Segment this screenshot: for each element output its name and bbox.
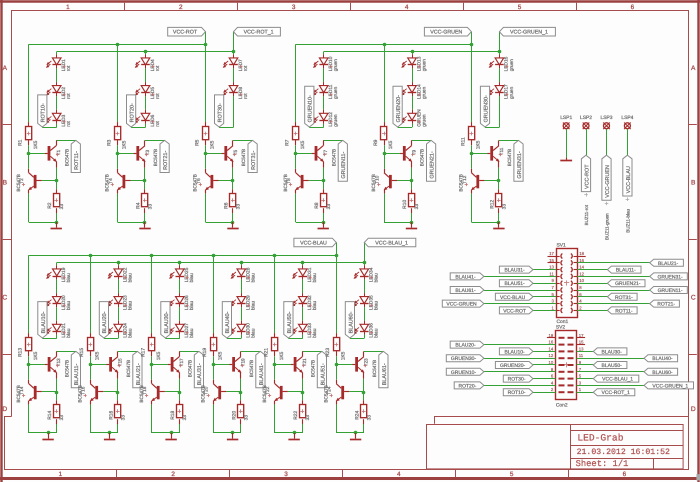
LED LED20 [47, 293, 72, 310]
svg-text:5: 5 [518, 4, 522, 11]
junction ground node R18 [170, 431, 174, 435]
svg-text:GRUEN10-: GRUEN10- [308, 95, 314, 122]
transistor T2 BC547B [16, 169, 42, 194]
svg-text:LED3: LED3 [61, 114, 67, 126]
net name BUZ11-rot [584, 193, 589, 225]
wire emitter T4 to ground [118, 193, 146, 222]
wire emitter T20 to ground [213, 404, 241, 433]
wire R15 to node [90, 351, 92, 365]
svg-text:LED11: LED11 [328, 84, 334, 99]
wire collector T14 [28, 365, 30, 380]
LED LED2 [47, 82, 73, 99]
svg-text:VCC-BLAU_1: VCC-BLAU_1 [375, 240, 408, 246]
wire emitter T13 to base T14 [42, 379, 57, 392]
wire VCC-GRUEN flag stem [471, 32, 473, 45]
svg-text:BC547B: BC547B [16, 174, 21, 191]
junction node R17/T17 [150, 363, 154, 367]
wire BLAU10- to pin [533, 351, 556, 353]
wire collector T4 [117, 154, 119, 169]
net flag BLAU51- [317, 351, 326, 387]
wire R7 to node [295, 140, 297, 154]
svg-text:R10: R10 [402, 200, 408, 209]
svg-text:R3: R3 [106, 139, 112, 146]
junction ground node R14 [47, 431, 51, 435]
junction ground node R16 [108, 431, 112, 435]
resistor R18 [170, 405, 188, 421]
wire emitter T2 to ground [29, 193, 57, 222]
svg-text:10: 10 [579, 278, 584, 283]
wire R16 [117, 392, 119, 433]
junction emitter T5/R6 [231, 179, 235, 183]
resistor R17 [141, 338, 162, 361]
frame column ticks bottom [117, 469, 569, 477]
wire VCC-BLAU_1 flag stem [364, 243, 366, 263]
transistor T15 BC547B [106, 351, 130, 378]
svg-text:BLAU20-: BLAU20- [455, 343, 476, 349]
svg-text:LED30: LED30 [246, 323, 252, 338]
junction node R9/T9 [383, 152, 387, 156]
wire R8 [323, 181, 325, 222]
svg-text:GRUEN: GRUEN [416, 109, 422, 127]
svg-text:33: 33 [182, 415, 188, 421]
title text LED-Grab [577, 433, 623, 444]
net flag VCC-ROT [499, 307, 533, 314]
wire pin to VCC-ROT_1 [577, 392, 594, 394]
svg-text:4: 4 [397, 471, 401, 478]
transistor T8 BC547B [283, 169, 309, 194]
wire pin to VCC-GRUEN_1 [577, 385, 645, 387]
svg-text:BLAU11-: BLAU11- [616, 268, 636, 274]
wire R22 [302, 392, 304, 433]
junction rail VCC-GRUEN_1 at LED13 [411, 50, 415, 54]
transistor T17 BC547B [168, 351, 193, 378]
svg-text:blau: blau [251, 273, 257, 282]
svg-text:GRUEN21-: GRUEN21- [615, 281, 641, 287]
wire emitter T10 to ground [384, 193, 412, 222]
svg-text:LED19: LED19 [61, 267, 67, 282]
svg-text:gruen: gruen [422, 86, 427, 99]
frame column numbers bottom [59, 471, 627, 478]
svg-text:LSP4: LSP4 [621, 115, 633, 121]
svg-text:6: 6 [631, 4, 635, 11]
net flag ROT30- [215, 95, 224, 127]
LED LED35 [354, 293, 380, 310]
net flag VCC-BLAU [294, 238, 336, 247]
junction rail VCC-BLAU at R17 [150, 254, 154, 258]
svg-text:ROT11-: ROT11- [74, 151, 80, 170]
svg-text:gruen: gruen [334, 86, 339, 99]
junction rail VCC-ROT_1 at LED4 [144, 50, 148, 54]
net flag VCC-BLAU_1 [593, 375, 639, 383]
transistor T21 BC547B [291, 351, 316, 378]
junction emitter T1/R2 [55, 179, 59, 183]
transistor T9 BC547B [400, 140, 425, 167]
svg-text:GRUEN30-: GRUEN30- [451, 356, 477, 362]
wire base T19 [213, 364, 229, 366]
wire emitter T7 to base T8 [309, 168, 324, 181]
svg-text:blau: blau [251, 301, 257, 310]
svg-text:blau: blau [374, 273, 380, 282]
svg-text:A: A [691, 65, 696, 72]
net flag GRUEN30- [480, 86, 489, 127]
net flag GRUEN10- [446, 368, 484, 376]
wire LED chain ROT10- [42, 52, 56, 128]
net flag VCC-BLAU_1 [364, 238, 416, 247]
wire base T1 [29, 153, 45, 155]
resistor R10 [402, 194, 420, 210]
junction rail VCC-BLAU_1 at LED22 [117, 261, 121, 265]
wire LED chain BLAU40- [227, 263, 242, 339]
svg-text:VCC-GRUEN: VCC-GRUEN [446, 302, 477, 308]
wire ROT30- to pin [533, 378, 556, 380]
svg-text:D: D [2, 406, 7, 413]
LED LED21 [47, 321, 72, 338]
junction node R1/T1 [27, 152, 31, 156]
junction rail VCC-ROT_1 at LED7 [232, 50, 236, 54]
LED LED28 [231, 265, 257, 282]
net flag GRUEN31- [650, 273, 688, 280]
svg-text:VCC-ROT: VCC-ROT [584, 164, 590, 189]
wire collector T15 to BLAU21- [118, 351, 138, 353]
svg-text:1K5: 1K5 [33, 351, 39, 360]
net flag GRUEN10- [305, 86, 314, 127]
svg-text:LED21: LED21 [61, 323, 67, 338]
wire R1 feed [28, 44, 30, 127]
wire R3 to node [117, 140, 119, 154]
svg-text:rot: rot [66, 93, 72, 99]
net flag BLAU21- [133, 351, 142, 387]
svg-text:rot: rot [155, 120, 161, 126]
svg-text:21.03.2012 16:01:52: 21.03.2012 16:01:52 [577, 448, 670, 457]
resistor R4 [136, 194, 154, 210]
resistor R21 [264, 338, 285, 361]
svg-text:BLAU31-: BLAU31- [504, 268, 525, 274]
wire VCC-GRUEN to pin [484, 303, 556, 305]
junction rail VCC-ROT at R5 [204, 43, 208, 47]
svg-text:BC547B: BC547B [241, 149, 246, 166]
svg-text:33: 33 [502, 204, 508, 210]
junction rail VCC-ROT at R3 [116, 43, 120, 47]
wire emitter T21 to base T22 [288, 379, 303, 392]
wire pin to BLAU40- [577, 358, 645, 360]
svg-text:blau: blau [312, 328, 318, 337]
wire VCC-GRUEN_1 flag stem [499, 32, 501, 52]
net flag BLAU61- [379, 351, 388, 387]
junction rail VCC-BLAU_1 at LED34 [363, 261, 367, 265]
wire R9 feed [384, 44, 386, 127]
LED LED1 [47, 54, 73, 71]
svg-text:Con2: Con2 [556, 402, 568, 408]
net flag GRUEN31- [514, 140, 523, 181]
junction emitter T19/R20 [239, 391, 243, 395]
ground R10 cell [406, 222, 417, 229]
svg-text:R1: R1 [18, 139, 24, 146]
svg-text:LED-Grab: LED-Grab [577, 433, 623, 444]
svg-text:ROT31-: ROT31- [251, 151, 257, 170]
wire collector T21 to BLAU51- [302, 351, 322, 353]
wire LED chain BLAU50- [288, 263, 302, 339]
svg-text:BC547B: BC547B [139, 385, 144, 402]
wire LSP2 to VCC-ROT [586, 129, 588, 155]
junction rail VCC-BLAU at R15 [89, 254, 93, 258]
junction emitter T13/R14 [55, 391, 59, 395]
svg-text:BC547B: BC547B [507, 149, 512, 166]
svg-text:GRUEN30-: GRUEN30- [483, 95, 489, 122]
resistor R22 [293, 405, 311, 421]
wire GRUEN20- to pin [533, 364, 556, 366]
junction emitter T15/R16 [116, 391, 120, 395]
transistor T12 BC547B [459, 169, 485, 194]
wire collector T17 to BLAU31- [179, 351, 199, 353]
wire collector T3 to ROT21- [145, 140, 165, 142]
net flag BLAU51- [499, 280, 533, 287]
junction rail VCC-BLAU_1 at LED28 [240, 261, 244, 265]
junction emitter T23/R24 [362, 391, 366, 395]
wire collector T13 to BLAU11- [56, 351, 76, 353]
resistor R16 [109, 405, 127, 421]
transistor T11 BC547B [488, 140, 513, 167]
svg-text:1K5: 1K5 [279, 351, 285, 360]
wire emitter T22 to ground [275, 404, 303, 433]
wire collector T18 [151, 365, 153, 380]
wire pin to ROT11- [577, 310, 607, 312]
svg-text:11: 11 [579, 353, 584, 358]
LED LED26 [170, 293, 196, 310]
svg-text:blau: blau [189, 273, 195, 282]
svg-text:LED32: LED32 [307, 295, 313, 310]
ground R14 cell [42, 433, 53, 440]
svg-text:blau: blau [128, 328, 134, 337]
svg-text:BLAU21-: BLAU21- [136, 363, 142, 385]
svg-text:ROT21-: ROT21- [657, 302, 675, 308]
transistor T10 BC547B [371, 169, 397, 194]
wire R2 [56, 181, 58, 222]
svg-text:blau: blau [66, 301, 72, 310]
transistor T19 BC547B [229, 351, 254, 378]
wire pin to ROT21- [577, 303, 650, 305]
wire BLAU41- to pin [484, 276, 556, 278]
net flag VCC-GRUEN [442, 300, 484, 308]
transistor T23 BC547B [352, 351, 377, 378]
net flag BLAU31- [499, 266, 533, 274]
svg-text:ROT30-: ROT30- [217, 103, 223, 122]
wire VCC-ROT_1 flag stem [233, 32, 235, 52]
svg-text:1K5: 1K5 [217, 351, 223, 360]
net flag ROT20- [127, 95, 136, 127]
svg-text:13: 13 [579, 346, 584, 351]
svg-text:18: 18 [579, 251, 584, 256]
wire LED chain BLAU60- [350, 263, 365, 339]
svg-text:BC547B: BC547B [262, 385, 267, 402]
frame row ticks left [3, 125, 12, 355]
svg-text:R4: R4 [136, 202, 142, 209]
svg-text:Sheet: 1/1: Sheet: 1/1 [576, 459, 629, 469]
LED LED14 [402, 82, 428, 99]
wire ROT20- to pin [484, 385, 556, 387]
wire collector T5 to ROT31- [233, 140, 253, 142]
wire emitter T24 to ground [336, 404, 364, 433]
wire emitter T19 to base T20 [226, 379, 241, 392]
svg-text:R21: R21 [264, 348, 270, 357]
frame column numbers top [66, 4, 635, 11]
svg-text:rot: rot [243, 93, 249, 99]
svg-text:LED25: LED25 [184, 267, 190, 282]
resistor R5 [194, 127, 215, 150]
junction rail VCC-GRUEN_1 at LED16 [498, 50, 502, 54]
wire R5 feed [205, 44, 207, 127]
svg-text:blau: blau [374, 328, 380, 337]
wire R11 feed [471, 44, 473, 127]
transistor T24 BC547B [323, 380, 349, 405]
junction ground node R22 [293, 431, 297, 435]
svg-text:C: C [691, 295, 696, 302]
net flag GRUEN11- [338, 140, 347, 181]
resistor R15 [79, 338, 100, 361]
svg-text:R20: R20 [232, 411, 238, 420]
svg-text:R12: R12 [490, 200, 496, 209]
svg-text:BUZ11-gruen: BUZ11-gruen [605, 213, 610, 240]
net flag GRUEN21- [427, 140, 436, 181]
svg-text:BC547B: BC547B [126, 360, 131, 377]
svg-text:BC547B: BC547B [323, 385, 328, 402]
svg-text:VCC-ROT_1: VCC-ROT_1 [602, 390, 631, 396]
wire R10 [411, 181, 413, 222]
wire R3 feed [117, 44, 119, 127]
net flag ROT11- [607, 307, 637, 314]
svg-text:LED13: LED13 [416, 56, 422, 71]
wire base T9 [384, 153, 400, 155]
net flag BLAU20- [99, 302, 108, 338]
LED LED30 [231, 321, 257, 338]
LED LED12 [314, 110, 340, 127]
wire LSP3 to VCC-GRUEN [606, 129, 608, 155]
wire R23 feed [336, 255, 338, 338]
net flag VCC-ROT_1 [234, 27, 281, 36]
svg-text:LED26: LED26 [184, 295, 190, 310]
wire R9 to node [384, 140, 386, 154]
svg-text:gruen: gruen [422, 114, 427, 127]
LED LED10 [314, 54, 340, 71]
svg-text:5: 5 [510, 471, 514, 478]
net flag ROT21- [160, 140, 169, 172]
resistor R8 [314, 194, 332, 210]
wire base T7 [296, 153, 312, 155]
junction emitter T3/R4 [143, 179, 147, 183]
svg-text:rot: rot [155, 65, 161, 71]
svg-text:LED20: LED20 [61, 295, 67, 310]
net flag ROT10- [503, 389, 533, 396]
wire base T17 [152, 364, 168, 366]
svg-text:gruen: gruen [334, 59, 339, 72]
net flag ROT21- [650, 300, 680, 308]
svg-text:BC547B: BC547B [200, 385, 205, 402]
junction rail VCC-GRUEN at R11 [470, 43, 474, 47]
svg-text:3: 3 [284, 471, 288, 478]
svg-text:blau: blau [189, 328, 195, 337]
junction ground node R8 [322, 221, 326, 225]
pad LSP1 [560, 115, 572, 129]
svg-text:33: 33 [366, 415, 372, 421]
svg-text:1K5: 1K5 [122, 140, 128, 149]
svg-text:R18: R18 [170, 411, 176, 420]
net flag GRUEN20- [495, 362, 533, 369]
wire emitter T17 to base T18 [165, 379, 180, 392]
svg-text:LED17: LED17 [504, 84, 510, 99]
transistor T4 BC547B [105, 169, 131, 194]
title sheet 1/1 [576, 459, 629, 469]
svg-text:ROT10-: ROT10- [508, 390, 526, 396]
svg-text:LED22: LED22 [123, 267, 129, 282]
wire collector T12 [471, 154, 473, 169]
svg-text:2: 2 [171, 471, 175, 478]
svg-text:BC547B: BC547B [283, 174, 288, 191]
svg-text:BLAU11-: BLAU11- [74, 364, 80, 386]
net name BUZ11-blau [626, 197, 631, 232]
connector SV2 Con2 [549, 325, 585, 409]
wire emitter T11 to base T12 [484, 168, 499, 181]
svg-text:BLAU50-: BLAU50- [287, 311, 293, 333]
connector SV1 Con1 [549, 243, 585, 325]
LED LED4 [135, 54, 161, 71]
junction ground node R12 [497, 221, 501, 225]
transistor T3 BC547B [134, 140, 159, 167]
wire R19 feed [213, 255, 215, 338]
svg-text:ROT31-: ROT31- [615, 295, 633, 301]
title block outline [427, 416, 690, 469]
net flag BLAU10- [38, 302, 47, 338]
ground R4 cell [139, 222, 150, 229]
svg-text:1: 1 [59, 471, 63, 478]
wire VCC-BLAU flag stem [336, 243, 338, 256]
net flag VCC-GRUEN [424, 27, 471, 36]
svg-text:SV1: SV1 [557, 243, 567, 249]
net flag BLAU40- [644, 355, 678, 362]
svg-text:R6: R6 [224, 202, 230, 209]
svg-text:BLAU61-: BLAU61- [382, 363, 388, 385]
net flag BLAU10- [499, 348, 533, 356]
svg-text:BLAU21-: BLAU21- [658, 261, 679, 267]
svg-text:A: A [3, 65, 8, 72]
svg-text:BC547B: BC547B [372, 360, 377, 377]
svg-text:ROT20-: ROT20- [129, 103, 135, 122]
net flag BLAU60- [644, 368, 678, 376]
transistor T16 BC547B [77, 380, 103, 405]
junction node R3/T3 [116, 152, 120, 156]
net flag VCC-BLAU [495, 293, 533, 301]
svg-text:BC547B: BC547B [249, 360, 254, 377]
wire R18 [179, 392, 181, 433]
svg-text:1K5: 1K5 [340, 351, 346, 360]
wire collector T10 [384, 154, 386, 169]
junction ground node R24 [354, 431, 358, 435]
resistor R1 [18, 127, 39, 150]
junction emitter T21/R22 [301, 391, 305, 395]
wire R5 to node [205, 140, 207, 154]
wire pin to BLAU11- [577, 269, 607, 271]
wire R1 to node [28, 140, 30, 154]
svg-text:BC547B: BC547B [371, 174, 376, 191]
wire collector T19 to BLAU41- [241, 351, 261, 353]
net flag BLAU31- [194, 351, 203, 387]
transistor T18 BC547B [139, 380, 165, 405]
wire R17 feed [151, 255, 153, 338]
svg-text:11: 11 [549, 271, 554, 276]
wire R24 [363, 392, 365, 433]
svg-text:blau: blau [128, 301, 134, 310]
LED GRUEN [402, 109, 428, 127]
wire base T11 [471, 153, 487, 155]
svg-text:VCC-ROT: VCC-ROT [173, 30, 198, 36]
